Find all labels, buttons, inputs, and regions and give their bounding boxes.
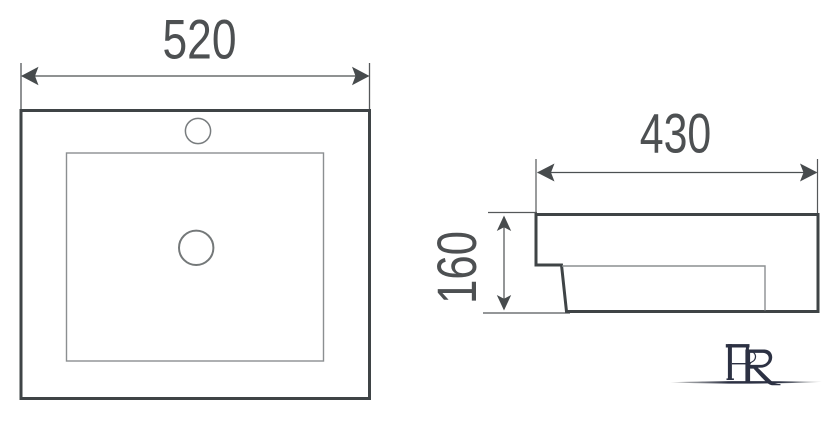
dimension line 430 bbox=[538, 172, 817, 174]
svg-text:430: 430 bbox=[640, 102, 712, 165]
logo swoosh bbox=[670, 381, 822, 384]
basin side profile outline bbox=[536, 215, 818, 312]
arrowhead 160 up bbox=[497, 216, 511, 232]
svg-text:160: 160 bbox=[425, 231, 488, 304]
extension line right (430) bbox=[817, 159, 819, 213]
arrowhead 430 right bbox=[800, 164, 818, 182]
P top bar bbox=[726, 344, 750, 347]
P top bar right serif bbox=[746, 347, 749, 351]
logo letter P bbox=[726, 344, 756, 380]
P foot serif bbox=[727, 378, 734, 380]
basin inner rect (top view) bbox=[67, 153, 324, 361]
dimension line 160 bbox=[503, 217, 505, 309]
extension line right (520) bbox=[369, 63, 371, 110]
extension line left (520) bbox=[20, 63, 22, 110]
svg-text:520: 520 bbox=[163, 8, 237, 71]
dimension line 520 bbox=[22, 75, 369, 77]
P crossbar bbox=[732, 363, 751, 364]
basin outer rect (top view) bbox=[21, 111, 370, 399]
arrowhead 160 down bbox=[497, 295, 511, 311]
arrowhead 520 right bbox=[352, 67, 370, 85]
extension line bottom (160) bbox=[483, 312, 570, 314]
extension line left (430) bbox=[535, 159, 537, 213]
logo letter R bbox=[745, 350, 780, 386]
faucet hole circle bbox=[185, 118, 210, 143]
extension line top (160) bbox=[488, 212, 537, 214]
arrowhead 430 left bbox=[537, 164, 555, 182]
P stem bbox=[728, 344, 732, 380]
P bowl hairline bbox=[749, 351, 756, 363]
drain hole circle bbox=[179, 231, 213, 265]
arrowhead 520 left bbox=[21, 67, 39, 85]
side profile inner basin line bbox=[562, 266, 765, 311]
